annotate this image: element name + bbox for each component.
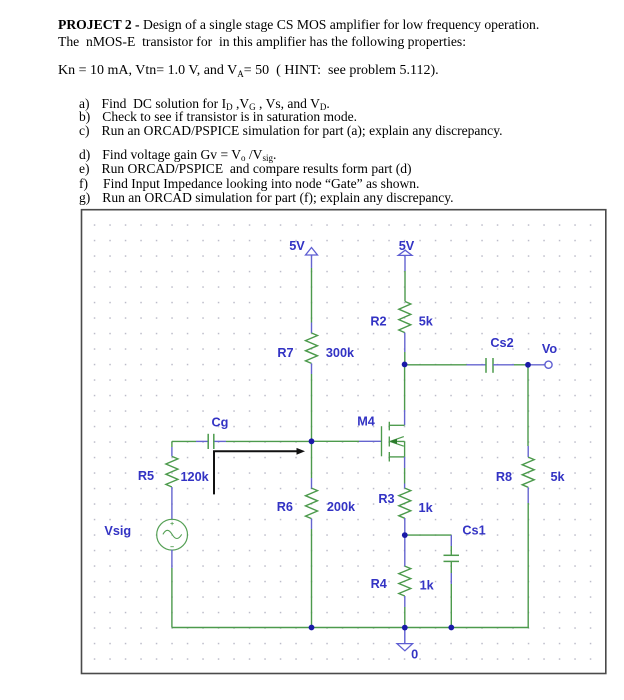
svg-text:300k: 300k [326, 346, 355, 360]
svg-text:Cg: Cg [211, 415, 228, 429]
wire: R4 down to ground node [404, 596, 406, 628]
svg-text:R4: R4 [371, 577, 387, 591]
wire: output node down to R8 [527, 365, 529, 457]
svg-text:R5: R5 [138, 469, 154, 483]
wire: R5 down to Vsig [171, 487, 173, 519]
resistor R3 body [399, 488, 411, 518]
wire: drain node to Cs2 [405, 364, 486, 366]
node drain [402, 362, 408, 368]
node Cs1 rail [448, 625, 454, 631]
svg-text:1k: 1k [419, 501, 434, 515]
wire: output node to Vo terminal [528, 364, 545, 366]
resistor R7 body [306, 333, 318, 363]
power symbol 5V left [306, 248, 318, 256]
input impedance probe arrow [214, 448, 305, 495]
list item d [79, 147, 276, 163]
document heading line 2 [58, 34, 466, 50]
power symbol 5V right [398, 250, 412, 255]
wire: input corner down to R5 [171, 441, 173, 456]
svg-text:R6: R6 [277, 500, 293, 514]
resistor R5 body [166, 456, 178, 487]
resistor R4 body [399, 566, 411, 596]
wire: right 5V supply down to R2 [404, 255, 406, 301]
wire: R7 down to gate node [311, 363, 313, 441]
wire: Vsig down to bottom rail [171, 550, 173, 628]
capacitor Cg [208, 434, 214, 449]
schematic frame border [82, 210, 606, 674]
wire: R6 down to bottom rail [311, 519, 313, 628]
parameters line [58, 63, 439, 79]
svg-text:5k: 5k [419, 315, 434, 329]
capacitor Cs2 [486, 358, 493, 373]
wire: Cs1 down to bottom rail [450, 561, 452, 627]
svg-text:R2: R2 [370, 314, 386, 328]
capacitor Cs1 [444, 555, 460, 561]
wire: source node down to R4 [404, 535, 406, 566]
svg-text:Vsig: Vsig [104, 524, 131, 538]
node output [525, 362, 531, 368]
resistor R2 body [399, 301, 411, 332]
grid dots (decorative) [82, 211, 605, 673]
wire: R8 down to bottom rail corner [527, 487, 529, 627]
list item b [79, 109, 357, 125]
wire: input corner to Cg [172, 440, 208, 442]
node R6 rail [309, 625, 315, 631]
wire: drain node down to M4 drain [404, 364, 406, 425]
svg-text:5V: 5V [289, 239, 305, 253]
bottom rail wire [172, 627, 529, 629]
node gate [309, 438, 315, 444]
wire: Cs2 to output node [493, 364, 528, 366]
svg-text:200k: 200k [327, 500, 356, 514]
node ground rail [402, 625, 408, 631]
wire: R3 down to source node [404, 518, 406, 535]
svg-text:R3: R3 [378, 492, 394, 506]
svg-text:120k: 120k [180, 470, 209, 484]
resistor R6 body [306, 488, 318, 518]
list item c [79, 123, 502, 139]
node source divider [402, 532, 408, 538]
svg-text:Cs1: Cs1 [462, 524, 485, 538]
document heading line 1 [58, 17, 539, 33]
list item e [79, 161, 412, 177]
svg-text:0: 0 [411, 648, 418, 662]
svg-text:5k: 5k [550, 470, 565, 484]
wire: Cg to gate node [214, 440, 311, 442]
terminal Vo circle [545, 361, 552, 368]
list item g [79, 190, 454, 206]
wire: R2 down to drain node [404, 333, 406, 365]
source Vsig [157, 519, 188, 550]
svg-text:R7: R7 [277, 346, 293, 360]
resistor R8 body [522, 457, 534, 487]
wire: gate node to M4 gate [312, 440, 382, 442]
svg-text:Cs2: Cs2 [490, 336, 513, 350]
list item a [79, 96, 330, 112]
svg-text:5V: 5V [399, 239, 415, 253]
ground symbol [397, 644, 413, 651]
ground stub wire [404, 628, 406, 644]
wire: left 5V supply down to R7 [311, 255, 313, 333]
svg-text:1k: 1k [420, 579, 435, 593]
junction node dots [309, 362, 531, 631]
svg-text:R8: R8 [496, 470, 512, 484]
wire: source node to Cs1 [405, 535, 452, 555]
wire: gate node down to R6 [311, 441, 313, 489]
svg-text:M4: M4 [357, 415, 375, 429]
transistor M4 [382, 422, 405, 462]
list item f [79, 176, 419, 192]
wire: M4 source down to R3 [404, 457, 406, 489]
svg-text:Vo: Vo [542, 342, 558, 356]
